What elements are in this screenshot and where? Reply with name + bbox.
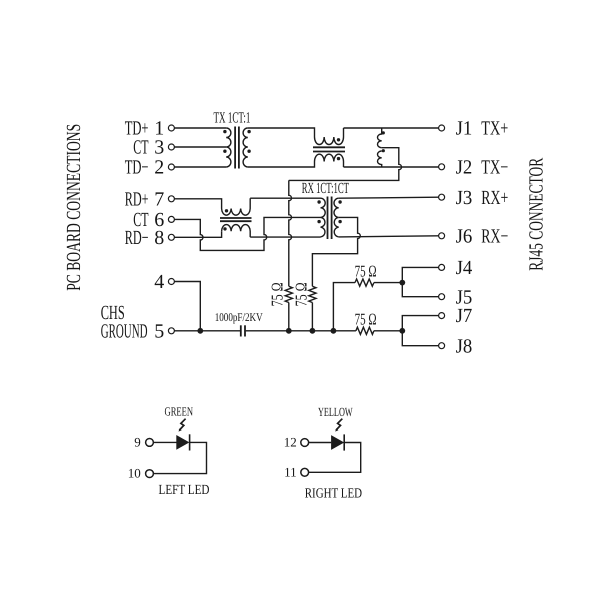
pin 4 bbox=[154, 271, 174, 293]
pin J4 bbox=[439, 257, 473, 279]
svg-text:J6: J6 bbox=[456, 225, 473, 247]
svg-text:LEFT LED: LEFT LED bbox=[159, 483, 210, 498]
junction R2/bus bbox=[310, 328, 316, 334]
svg-text:TX+: TX+ bbox=[481, 118, 508, 140]
choke L1 top winding bbox=[315, 128, 344, 145]
T1 primary polarity dots bbox=[223, 130, 226, 153]
svg-text:J4: J4 bbox=[456, 257, 473, 279]
pin J1 TX+ bbox=[439, 118, 509, 140]
svg-text:RX−: RX− bbox=[481, 225, 508, 247]
svg-text:J3: J3 bbox=[456, 187, 473, 209]
junction R3/bus bbox=[331, 328, 337, 334]
svg-text:9: 9 bbox=[134, 435, 141, 450]
pin 1 TD+ bbox=[125, 118, 175, 140]
svg-text:TD−: TD− bbox=[125, 157, 149, 179]
pin 7 RD+ bbox=[125, 188, 175, 210]
svg-text:10: 10 bbox=[128, 466, 141, 481]
choke L3 bottom winding bbox=[222, 225, 251, 238]
wire T1 to L1 bottom bbox=[248, 162, 315, 168]
pin J2 TX- bbox=[439, 156, 509, 178]
svg-text:2: 2 bbox=[154, 157, 164, 179]
junction R3/bracket bbox=[399, 280, 405, 286]
junction R4/bracket bbox=[399, 328, 405, 334]
wire pin5 ground bus left bbox=[175, 330, 241, 332]
autotransformer L2 lower half bbox=[378, 151, 382, 167]
svg-text:7: 7 bbox=[154, 188, 164, 210]
svg-text:12: 12 bbox=[284, 435, 297, 450]
wire pin7 RD+ to L3 bbox=[175, 199, 222, 209]
svg-text:1000pF/2KV: 1000pF/2KV bbox=[215, 310, 263, 324]
pin 10 bbox=[128, 466, 154, 481]
svg-text:J1: J1 bbox=[456, 118, 473, 140]
net label: CHS GROUND bbox=[101, 302, 148, 343]
pin 9 bbox=[134, 435, 153, 450]
svg-text:75 Ω: 75 Ω bbox=[355, 262, 377, 281]
svg-text:75 Ω: 75 Ω bbox=[268, 282, 287, 306]
transformer T1 primary winding bbox=[226, 128, 231, 167]
pin 5 bbox=[154, 320, 174, 342]
wire L1 to J2 TX- bbox=[344, 166, 439, 168]
LED D2 emission arrow bbox=[335, 419, 342, 432]
L3 top polarity dot bbox=[225, 209, 228, 212]
wire pin8 RD- to L3 bbox=[175, 231, 222, 237]
T2 secondary polarity dots bbox=[338, 200, 341, 223]
transformer T2 secondary winding bbox=[334, 198, 339, 237]
resistor R3 75ohm bbox=[355, 279, 374, 286]
LED D1 cathode bar bbox=[189, 434, 191, 450]
svg-text:J2: J2 bbox=[456, 156, 473, 178]
pin 2 TD- bbox=[125, 157, 175, 179]
svg-text:3: 3 bbox=[154, 137, 164, 159]
wire T2 to J6 RX- bbox=[339, 236, 439, 237]
svg-text:CT: CT bbox=[133, 137, 148, 159]
wire D1 to pin10 bbox=[153, 442, 206, 473]
choke L1 bottom winding bbox=[315, 154, 344, 167]
wire L2 center tap with hop over J2 bbox=[289, 148, 402, 181]
autotransformer L2 upper half bbox=[377, 128, 381, 148]
wire T2 to J3 RX+ bbox=[339, 197, 439, 198]
transformer T2 core bbox=[328, 197, 332, 240]
svg-text:75 Ω: 75 Ω bbox=[292, 282, 311, 306]
pin J3 RX+ bbox=[439, 187, 509, 209]
wire pin6 CT to T2 tap with hops bbox=[175, 217, 321, 250]
pin J8 bbox=[439, 335, 473, 357]
svg-text:YELLOW: YELLOW bbox=[318, 405, 353, 419]
wire pin2 TD- to T1 bbox=[175, 166, 227, 168]
svg-text:RD−: RD− bbox=[125, 227, 149, 249]
wire T1 to L1 top bbox=[248, 128, 315, 137]
LED D2 anode triangle bbox=[331, 435, 344, 450]
wire L1 to J1 TX+ bbox=[344, 127, 439, 129]
L3 bottom polarity dot bbox=[223, 227, 226, 230]
pin 12 bbox=[284, 435, 309, 450]
svg-text:GREEN: GREEN bbox=[165, 404, 194, 418]
wire ground bus middle bbox=[246, 330, 356, 332]
wire R4 to J7/J8 bbox=[374, 330, 402, 332]
T2 primary polarity dots bbox=[317, 200, 320, 223]
svg-text:RJ45 CONNECTOR: RJ45 CONNECTOR bbox=[526, 157, 548, 270]
wire R2 to ground bus bbox=[311, 303, 313, 331]
svg-text:TX 1CT:1: TX 1CT:1 bbox=[214, 109, 251, 126]
svg-text:11: 11 bbox=[284, 464, 297, 479]
svg-text:GROUND: GROUND bbox=[101, 320, 148, 342]
svg-text:RIGHT LED: RIGHT LED bbox=[305, 486, 362, 501]
resistor R4 75ohm bbox=[356, 327, 374, 334]
transformer T1 core bbox=[235, 127, 239, 169]
svg-text:4: 4 bbox=[154, 271, 164, 293]
capacitor C1 1000pF/2KV bbox=[241, 325, 245, 336]
resistor R2 75ohm bbox=[309, 286, 316, 302]
wire T2 secondary tap to R2 with hop over J6 bbox=[312, 217, 360, 286]
wire bus up to R3 bbox=[333, 283, 355, 331]
svg-text:J7: J7 bbox=[456, 305, 473, 327]
pin J7 bbox=[439, 305, 473, 327]
L2 upper polarity dot bbox=[382, 131, 385, 134]
pin J6 RX- bbox=[439, 225, 509, 247]
pin 8 RD- bbox=[125, 227, 175, 249]
transformer T1 secondary winding bbox=[243, 128, 248, 167]
wire pin1 TD+ to T1 bbox=[175, 127, 227, 129]
wire bracket J7 J8 bbox=[402, 316, 438, 346]
T1 secondary polarity dots bbox=[247, 130, 250, 153]
L1 top polarity dot bbox=[337, 138, 340, 141]
svg-text:RD+: RD+ bbox=[125, 188, 149, 210]
choke L3 top winding bbox=[222, 198, 251, 215]
junction pin4/bus bbox=[197, 328, 203, 334]
L2 lower polarity dot bbox=[382, 149, 385, 152]
wire R3 to J4/J5 bbox=[374, 282, 402, 284]
svg-text:75 Ω: 75 Ω bbox=[355, 310, 377, 329]
wire pin3 CT to T1 tap bbox=[175, 146, 227, 148]
wire tap bus down to R1 with hops bbox=[289, 180, 292, 286]
svg-text:RX 1CT:1CT: RX 1CT:1CT bbox=[302, 180, 349, 197]
junction R1/bus bbox=[286, 328, 292, 334]
svg-text:PC BOARD CONNECTIONS: PC BOARD CONNECTIONS bbox=[63, 124, 85, 291]
svg-text:5: 5 bbox=[154, 320, 164, 342]
pin 11 bbox=[284, 464, 308, 479]
wire pin12 to D2 bbox=[309, 442, 332, 444]
wire pin9 to D1 bbox=[153, 441, 176, 443]
transformer T2 primary winding bbox=[321, 198, 326, 237]
svg-text:J8: J8 bbox=[456, 335, 473, 357]
pin 6 CT bbox=[133, 209, 174, 231]
svg-text:RX+: RX+ bbox=[481, 187, 508, 209]
choke L3 core bbox=[220, 218, 252, 221]
LED D1 anode triangle bbox=[176, 435, 189, 450]
wire R1 to ground bus bbox=[288, 303, 290, 331]
choke L1 core bbox=[313, 147, 345, 151]
LED D2 cathode bar bbox=[343, 434, 345, 450]
LED D1 emission arrow bbox=[179, 419, 186, 432]
pin 3 CT bbox=[133, 137, 174, 159]
svg-text:8: 8 bbox=[154, 227, 164, 249]
L1 bottom polarity dot bbox=[337, 157, 340, 160]
wire D2 to pin11 bbox=[309, 443, 361, 473]
wire bracket J4 J5 bbox=[402, 267, 438, 296]
wire L3 to T2 top bbox=[250, 197, 320, 199]
wire L3 to T2 bottom bbox=[250, 236, 320, 238]
svg-text:TX−: TX− bbox=[481, 156, 508, 178]
wire pin4 to ground bus bbox=[175, 282, 201, 331]
resistor R1 75ohm bbox=[285, 286, 292, 302]
pin J5 bbox=[439, 286, 473, 308]
